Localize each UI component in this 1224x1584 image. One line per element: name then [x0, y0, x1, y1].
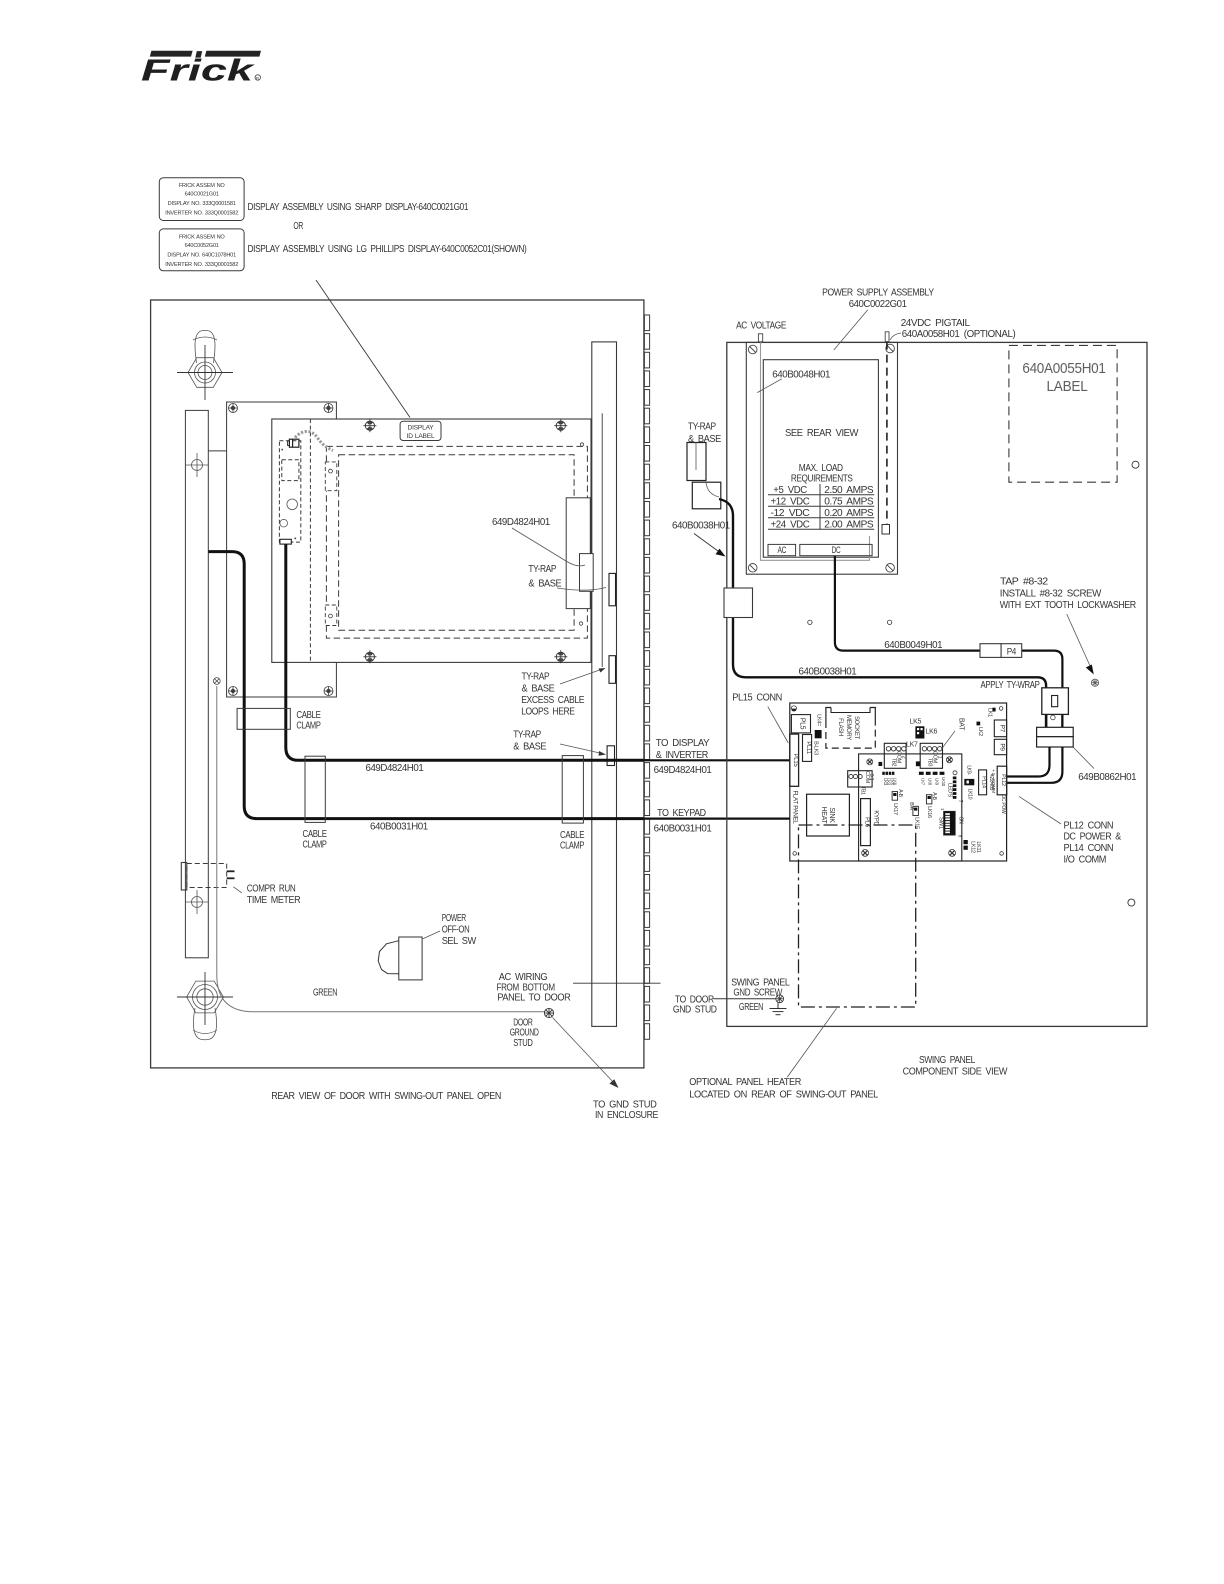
svg-text:FLAT PANEL: FLAT PANEL — [792, 790, 799, 824]
connector KYPD — [861, 799, 871, 846]
display id label box — [400, 421, 441, 440]
svg-text:FLASH: FLASH — [837, 718, 843, 736]
svg-text:CLAMP: CLAMP — [296, 721, 321, 732]
svg-text:AC VOLTAGE: AC VOLTAGE — [736, 320, 787, 331]
svg-text:640B0049H01: 640B0049H01 — [884, 640, 943, 651]
svg-text:LK1: LK1 — [987, 708, 993, 717]
connector PL12 — [997, 766, 1007, 795]
svg-text:STUD: STUD — [513, 1038, 532, 1049]
svg-text:640B0038H01: 640B0038H01 — [799, 667, 858, 678]
svg-text:LK6: LK6 — [926, 729, 938, 736]
ty-rap 3 — [607, 746, 614, 766]
svg-text:& BASE: & BASE — [688, 434, 722, 445]
svg-text:POWER: POWER — [442, 913, 466, 924]
svg-text:LK16: LK16 — [926, 806, 932, 818]
jumper LK1 top-right — [992, 708, 995, 712]
svg-text:INSTALL #8-32 SCREW: INSTALL #8-32 SCREW — [1000, 589, 1102, 600]
24vdc pigtail dashed — [886, 342, 888, 524]
connector PL15 — [790, 734, 799, 786]
PL12 CONN callout — [1019, 796, 1061, 824]
panel screw top-left — [363, 419, 376, 432]
display inner dashed rect — [339, 455, 574, 631]
psu screw tr — [886, 344, 895, 353]
pcb corner holes — [999, 707, 1003, 711]
ac voltage grey wire — [761, 335, 782, 561]
svg-text:DC: DC — [832, 545, 841, 555]
pcb screw mid-right — [946, 757, 952, 763]
panel hole top-right — [580, 443, 583, 446]
svg-text:FRICK ASSEM NO: FRICK ASSEM NO — [179, 235, 226, 241]
connector P9 — [994, 739, 1006, 754]
connector PL14 — [979, 770, 987, 795]
jumper bank LK3-LK6 — [882, 772, 897, 786]
label box 2 (Frick assem no 640C0052G01) — [159, 229, 244, 271]
svg-text:& BASE: & BASE — [528, 579, 562, 590]
svg-text:& BASE: & BASE — [522, 683, 556, 694]
svg-text:TB1: TB1 — [860, 786, 866, 795]
svg-text:DISPLAY NO. 640C1078H01: DISPLAY NO. 640C1078H01 — [167, 253, 236, 259]
svg-text:DISPLAY: DISPLAY — [408, 425, 435, 432]
649B0862H01 label — [1074, 748, 1095, 769]
jumper LK2 right — [977, 722, 981, 726]
psu screw bl — [748, 564, 757, 573]
inverter board dashed outline — [279, 441, 300, 542]
svg-text:LK12: LK12 — [970, 841, 976, 853]
svg-text:-12 VDC: -12 VDC — [771, 508, 810, 519]
AC box — [768, 544, 796, 555]
svg-text:KYPD: KYPD — [873, 810, 879, 826]
svg-text:TB2: TB2 — [891, 758, 897, 767]
plate screw bottom-right — [324, 687, 333, 696]
svg-text:+5 VDC: +5 VDC — [773, 485, 807, 496]
svg-text:I/O COMM: I/O COMM — [1064, 854, 1107, 865]
svg-text:640B0031H01: 640B0031H01 — [654, 823, 713, 834]
svg-text:A-B: A-B — [897, 789, 903, 797]
wires to PL12 — [1007, 747, 1050, 777]
notch dashed top — [325, 462, 337, 491]
svg-text:LK6: LK6 — [893, 778, 898, 786]
jumper LK4 — [815, 730, 822, 738]
door outline (rear view) — [151, 300, 644, 1068]
svg-text:0.75 AMPS: 0.75 AMPS — [824, 496, 874, 507]
toggle key switch (bottom) — [177, 972, 233, 1040]
svg-text:LED'S: LED'S — [947, 783, 953, 798]
keypad cable (door) 640B0031H01 — [209, 552, 644, 819]
swing panel outline (component side) — [727, 342, 1147, 1026]
svg-text:APPLY TY-WRAP: APPLY TY-WRAP — [981, 680, 1041, 691]
svg-text:PL14: PL14 — [981, 776, 987, 788]
svg-text:640B0031H01: 640B0031H01 — [370, 821, 429, 832]
svg-text:Frick: Frick — [141, 53, 256, 88]
svg-text:OPTIONAL PANEL HEATER: OPTIONAL PANEL HEATER — [689, 1077, 801, 1088]
svg-text:DC POWER &: DC POWER & — [1064, 832, 1122, 843]
svg-text:TO KEYPAD: TO KEYPAD — [657, 808, 706, 819]
label box 1 (Frick assem no 640C0021G01) — [159, 178, 244, 221]
dip switch SW1 — [938, 808, 964, 838]
svg-text:TAP #8-32: TAP #8-32 — [1000, 577, 1049, 588]
terminal TB1 COM 3 — [848, 771, 874, 795]
svg-text:LK2: LK2 — [977, 727, 983, 736]
svg-text:SOCKET: SOCKET — [853, 716, 859, 740]
svg-text:+12 VDC: +12 VDC — [771, 496, 810, 507]
jumper A-B LK17 — [892, 789, 903, 815]
P4 connector — [980, 644, 1001, 658]
svg-text:649D4824H01: 649D4824H01 — [492, 517, 551, 528]
svg-text:LK7: LK7 — [906, 742, 918, 749]
ground symbol — [770, 1003, 787, 1015]
display opening dashed rect — [326, 446, 587, 638]
svg-text:640A0055H01: 640A0055H01 — [1022, 360, 1105, 377]
connector PL11 — [803, 735, 812, 762]
wire 640B0038H01 — [719, 499, 1046, 728]
svg-text:ON: ON — [958, 817, 964, 825]
svg-text:640A0058H01 (OPTIONAL): 640A0058H01 (OPTIONAL) — [902, 329, 1016, 340]
svg-text:LK10: LK10 — [941, 777, 946, 787]
svg-text:FRICK ASSEM NO: FRICK ASSEM NO — [179, 183, 226, 189]
svg-text:REAR VIEW OF DOOR WITH SW: REAR VIEW OF DOOR WITH SWING-OUT PANEL O… — [271, 1091, 501, 1102]
panel screw bottom-left — [363, 650, 376, 663]
svg-text:TY-RAP: TY-RAP — [513, 730, 541, 741]
jumper bank LK7-LK10 — [919, 772, 946, 787]
svg-text:LK10: LK10 — [967, 789, 973, 800]
display cable (across hinge to PL15) — [644, 759, 790, 761]
display cable (door) 649D4824H01 — [286, 544, 644, 760]
svg-text:& INVERTER: & INVERTER — [656, 750, 708, 761]
svg-text:PL15: PL15 — [792, 754, 798, 768]
optional panel heater outline — [799, 825, 916, 1007]
power off-on sel switch — [378, 937, 422, 980]
plate screw top-right — [324, 404, 333, 413]
svg-text:AC: AC — [777, 545, 786, 555]
right swing rail — [592, 342, 617, 1027]
cable entry block — [724, 588, 753, 618]
svg-text:3 1: 3 1 — [868, 774, 874, 781]
plate screw bottom-left — [229, 687, 238, 696]
rail crosshair (upper) — [186, 453, 208, 477]
cable clamp 3 — [562, 756, 583, 824]
svg-text:0.20 AMPS: 0.20 AMPS — [824, 508, 874, 519]
swing gnd screw on rail — [213, 678, 220, 685]
svg-text:ID LABEL: ID LABEL — [407, 433, 435, 440]
svg-text:SW1: SW1 — [938, 817, 944, 830]
terminal TB3 COM 1 — [920, 743, 942, 768]
ty-rap 1 — [609, 573, 616, 605]
svg-text:LK4=: LK4= — [816, 714, 822, 726]
cable clamp 1 — [237, 708, 290, 729]
svg-text:PL5: PL5 — [799, 718, 806, 730]
green ground wire (door) — [217, 686, 545, 1012]
power supply assembly outline — [746, 342, 897, 574]
svg-text:DISPLAY ASSEMBLY USING LG: DISPLAY ASSEMBLY USING LG PHILLIPS DISPL… — [248, 244, 527, 255]
svg-text:PL11: PL11 — [805, 741, 811, 754]
flash memory socket — [826, 708, 875, 749]
toggle key switch (top) — [177, 330, 233, 400]
svg-text:WITH EXT TOOTH LOCKWASHER: WITH EXT TOOTH LOCKWASHER — [1000, 600, 1136, 611]
connector PL5 — [791, 715, 810, 733]
door ground stud — [544, 1008, 553, 1017]
svg-text:SEE REAR VIEW: SEE REAR VIEW — [785, 428, 859, 439]
svg-text:PL12: PL12 — [1000, 774, 1006, 786]
inverter top plug — [288, 439, 299, 447]
display swing panel — [272, 419, 591, 662]
svg-text:GND STUD: GND STUD — [673, 1005, 717, 1016]
svg-text:+ & - COMM: + & - COMM — [990, 769, 996, 793]
svg-text:LK5: LK5 — [910, 719, 922, 726]
svg-text:MEMORY: MEMORY — [845, 715, 851, 740]
leader to gnd stud in enclosure — [553, 1018, 615, 1084]
svg-text:P7: P7 — [999, 725, 1006, 733]
left mounting rail — [185, 410, 208, 957]
svg-text:LOOPS HERE: LOOPS HERE — [521, 706, 575, 717]
svg-text:640B0038H01: 640B0038H01 — [672, 521, 731, 532]
svg-text:GND SCREW: GND SCREW — [733, 988, 782, 999]
inverter bottom connector — [280, 539, 291, 544]
svg-text:TY-RAP: TY-RAP — [528, 564, 556, 575]
ty-wrap block — [1042, 688, 1069, 715]
jumpers LK5 LK6 LK7 — [906, 719, 937, 749]
svg-text:PL15 CONN: PL15 CONN — [732, 693, 782, 704]
svg-text:SWING PANEL: SWING PANEL — [919, 1055, 976, 1066]
jumper LK1 (by TB2) — [879, 762, 883, 766]
svg-text:INVERTER NO. 333Q0001582: INVERTER NO. 333Q0001582 — [165, 262, 238, 268]
hinge teeth strip — [644, 315, 649, 1039]
svg-text:DC POW: DC POW — [1000, 795, 1006, 814]
psu screw tl — [748, 345, 757, 354]
svg-text:OR: OR — [293, 221, 303, 232]
svg-text:649D4824H01: 649D4824H01 — [654, 765, 713, 776]
svg-text:POWER SUPPLY ASSEMBLY: POWER SUPPLY ASSEMBLY — [822, 288, 934, 299]
panel hinge dashed line — [309, 419, 311, 662]
jumper LK9-LK10 — [964, 779, 974, 785]
pcb screw bot-right — [949, 850, 956, 857]
640A0055H01 label dashed box — [1009, 345, 1117, 482]
svg-text:CLAMP: CLAMP — [303, 839, 328, 850]
rail-plate step — [208, 450, 226, 452]
keypad cable (across hinge to KYPD) — [644, 817, 861, 819]
svg-text:649B0862H01: 649B0862H01 — [1078, 772, 1137, 783]
connector P7 — [994, 720, 1006, 737]
LED column — [947, 771, 964, 803]
svg-text:2: 2 — [901, 756, 907, 759]
svg-text:LOCATED ON REAR OF SWING-O: LOCATED ON REAR OF SWING-OUT PANEL — [689, 1089, 878, 1100]
svg-text:TIME METER: TIME METER — [247, 895, 301, 906]
jumper B-A LK15 — [908, 802, 920, 829]
svg-text:1: 1 — [937, 756, 943, 759]
svg-text:LK15: LK15 — [914, 817, 920, 829]
terminal TB2 COM 2 — [884, 743, 906, 768]
svg-text:B-A: B-A — [908, 802, 914, 810]
svg-text:SINK: SINK — [828, 807, 835, 823]
svg-text:GREEN: GREEN — [313, 988, 337, 999]
svg-text:2.50 AMPS: 2.50 AMPS — [824, 485, 874, 496]
svg-text:PL14 CONN: PL14 CONN — [1064, 843, 1114, 854]
inverter flex ribbon — [295, 431, 333, 450]
pcb screw bot-left — [862, 850, 869, 857]
pcb screw tl — [791, 706, 797, 712]
svg-text:PANEL TO DOOR: PANEL TO DOOR — [497, 993, 570, 1004]
jumper A-B LK16 — [926, 792, 937, 818]
svg-text:TB3: TB3 — [927, 758, 933, 767]
DC box — [800, 544, 872, 555]
wide clamp block — [1037, 727, 1074, 736]
svg-text:24VDC PIGTAIL: 24VDC PIGTAIL — [901, 318, 971, 329]
svg-text:REQUIREMENTS: REQUIREMENTS — [791, 473, 853, 484]
svg-text:DISPLAY ASSEMBLY USING SHAR: DISPLAY ASSEMBLY USING SHARP DISPLAY-640… — [248, 202, 469, 213]
svg-text:DISPLAY NO. 333Q0001581: DISPLAY NO. 333Q0001581 — [168, 201, 236, 207]
panel screw top-right — [554, 419, 567, 432]
svg-text:EXCESS CABLE: EXCESS CABLE — [521, 695, 585, 706]
svg-text:LK11: LK11 — [975, 841, 981, 852]
svg-text:B-LK3: B-LK3 — [813, 741, 819, 755]
swing panel backing plate — [227, 402, 337, 697]
notch dashed bottom — [325, 605, 337, 626]
pcb screw mid-left — [867, 759, 873, 765]
svg-text:PL12 CONN: PL12 CONN — [1064, 820, 1114, 831]
svg-text:& BASE: & BASE — [513, 741, 547, 752]
wire pass through block — [1045, 714, 1047, 727]
svg-text:OFF-ON: OFF-ON — [442, 925, 470, 936]
svg-text:PL6: PL6 — [864, 817, 870, 828]
svg-text:A-B: A-B — [931, 792, 937, 800]
load table — [768, 484, 874, 531]
svg-text:TO DISPLAY: TO DISPLAY — [656, 738, 710, 749]
psu screw br — [886, 564, 895, 573]
jumper LK2 (by TB3) — [916, 761, 920, 766]
svg-text:IN ENCLOSURE: IN ENCLOSURE — [595, 1110, 659, 1121]
svg-text:GREEN: GREEN — [739, 1002, 763, 1013]
display connector bracket — [566, 498, 590, 609]
panel screw bottom-right — [554, 650, 567, 663]
heat sink — [807, 794, 850, 836]
svg-text:CLAMP: CLAMP — [560, 840, 585, 851]
wire 640B0049H01 — [835, 556, 980, 651]
svg-text:HEAT: HEAT — [820, 807, 827, 825]
svg-text:TY-RAP: TY-RAP — [522, 672, 550, 683]
svg-text:640C0022G01: 640C0022G01 — [849, 299, 908, 310]
svg-text:LK9-: LK9- — [966, 765, 972, 775]
PCB outline — [790, 703, 1007, 861]
cable clamp 2 — [305, 756, 325, 822]
svg-text:P4: P4 — [1007, 646, 1017, 656]
PCB keypad section rect — [859, 754, 962, 861]
svg-text:SEL SW: SEL SW — [442, 936, 477, 947]
svg-text:LK9: LK9 — [934, 778, 939, 786]
svg-text:TY-RAP: TY-RAP — [688, 422, 716, 433]
compr run time meter — [181, 863, 234, 891]
svg-text:BAT: BAT — [958, 718, 965, 731]
ty-rap 2 — [609, 656, 616, 684]
rail crosshair (lower) — [186, 890, 208, 914]
svg-text:COMPONENT SIDE VIEW: COMPONENT SIDE VIEW — [903, 1067, 1008, 1078]
rail crease line — [601, 413, 603, 667]
panel hole bottom-right — [579, 622, 582, 625]
jumpers LK12 LK11 — [964, 840, 981, 853]
svg-text:INVERTER NO. 333Q0001582: INVERTER NO. 333Q0001582 — [165, 211, 238, 217]
svg-text:LK8: LK8 — [927, 778, 932, 786]
plate screw top-left — [229, 404, 238, 413]
psu body rect — [763, 360, 878, 558]
svg-text:640C0052G01: 640C0052G01 — [185, 243, 219, 249]
svg-text:LK7: LK7 — [921, 778, 926, 786]
svg-text:P9: P9 — [999, 743, 1006, 751]
svg-text:COMPR RUN: COMPR RUN — [247, 884, 296, 895]
swing panel gnd screw — [776, 995, 784, 1003]
Frick logo — [141, 51, 261, 88]
svg-text:LK17: LK17 — [892, 803, 898, 815]
svg-text:640C0021G01: 640C0021G01 — [185, 192, 219, 198]
panel holes — [1132, 461, 1139, 468]
leader from notes to display id label — [316, 280, 410, 418]
ac voltage terminal — [758, 334, 762, 342]
svg-text:649D4824H01: 649D4824H01 — [366, 763, 425, 774]
svg-text:LABEL: LABEL — [1047, 378, 1088, 395]
